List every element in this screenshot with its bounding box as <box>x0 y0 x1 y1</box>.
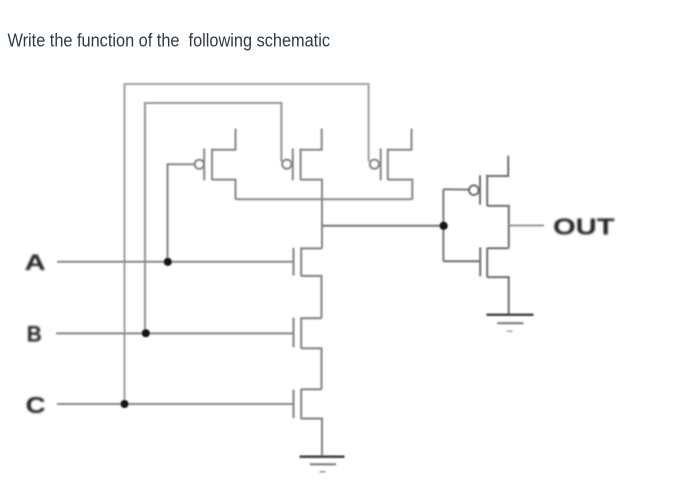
wire NAND output tap to inverter <box>322 225 443 227</box>
ground GND2 <box>487 315 534 331</box>
wire A riser to PMOS M1 gate <box>168 164 195 261</box>
ground GND1 <box>300 457 345 472</box>
node dot B junction <box>142 329 150 337</box>
svg-text:OUT: OUT <box>553 214 615 240</box>
nmos M8 (inverter) <box>443 247 508 314</box>
wire input A <box>57 261 293 263</box>
nmos M6 (gate C) <box>294 389 323 457</box>
node dot A junction <box>164 258 172 266</box>
svg-text:C: C <box>26 392 46 418</box>
svg-text:B: B <box>27 322 42 347</box>
nmos M4 (gate A) <box>294 247 323 318</box>
wire inverter input vertical <box>442 189 444 261</box>
wire B riser to PMOS M2 gate <box>145 103 281 333</box>
node dot C junction <box>120 400 128 408</box>
pmos M1 (gate A) <box>195 129 236 200</box>
svg-text:Write the function of the fol: Write the function of the following sche… <box>8 30 331 51</box>
wire common pmos drain rail <box>236 198 413 200</box>
pmos M2 (gate B) <box>282 129 322 249</box>
wire C riser to PMOS M3 gate <box>125 84 369 404</box>
nmos M5 (gate B) <box>294 317 322 389</box>
svg-text:A: A <box>25 250 46 275</box>
wire OUT lead <box>509 224 544 226</box>
wire to inverter pmos gate <box>443 188 469 190</box>
wire input C <box>57 403 293 405</box>
pmos M3 (gate C) <box>370 129 413 200</box>
node dot inverter input <box>439 222 447 230</box>
pmos M7 (inverter) <box>469 156 509 248</box>
wire input B <box>56 332 293 334</box>
